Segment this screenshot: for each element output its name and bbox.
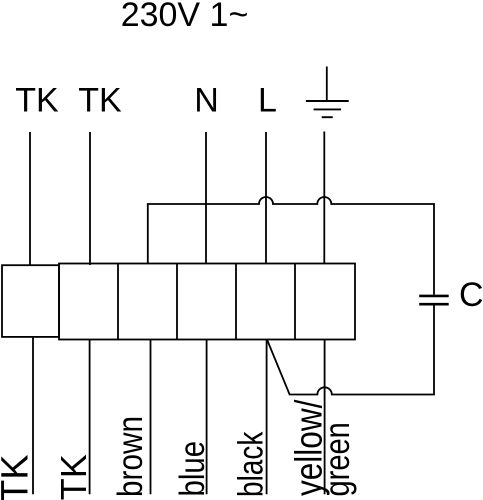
svg-text:green: green xyxy=(317,422,356,496)
svg-text:TK: TK xyxy=(78,82,122,120)
svg-text:black: black xyxy=(230,432,270,497)
svg-text:brown: brown xyxy=(111,416,150,497)
svg-text:N: N xyxy=(194,82,219,120)
svg-text:TK: TK xyxy=(0,454,37,500)
svg-text:TK: TK xyxy=(53,454,94,500)
svg-text:blue: blue xyxy=(173,441,212,497)
svg-text:230V 1~: 230V 1~ xyxy=(121,0,249,34)
svg-text:C: C xyxy=(459,276,483,314)
svg-text:TK: TK xyxy=(15,82,59,120)
svg-text:L: L xyxy=(258,82,277,120)
